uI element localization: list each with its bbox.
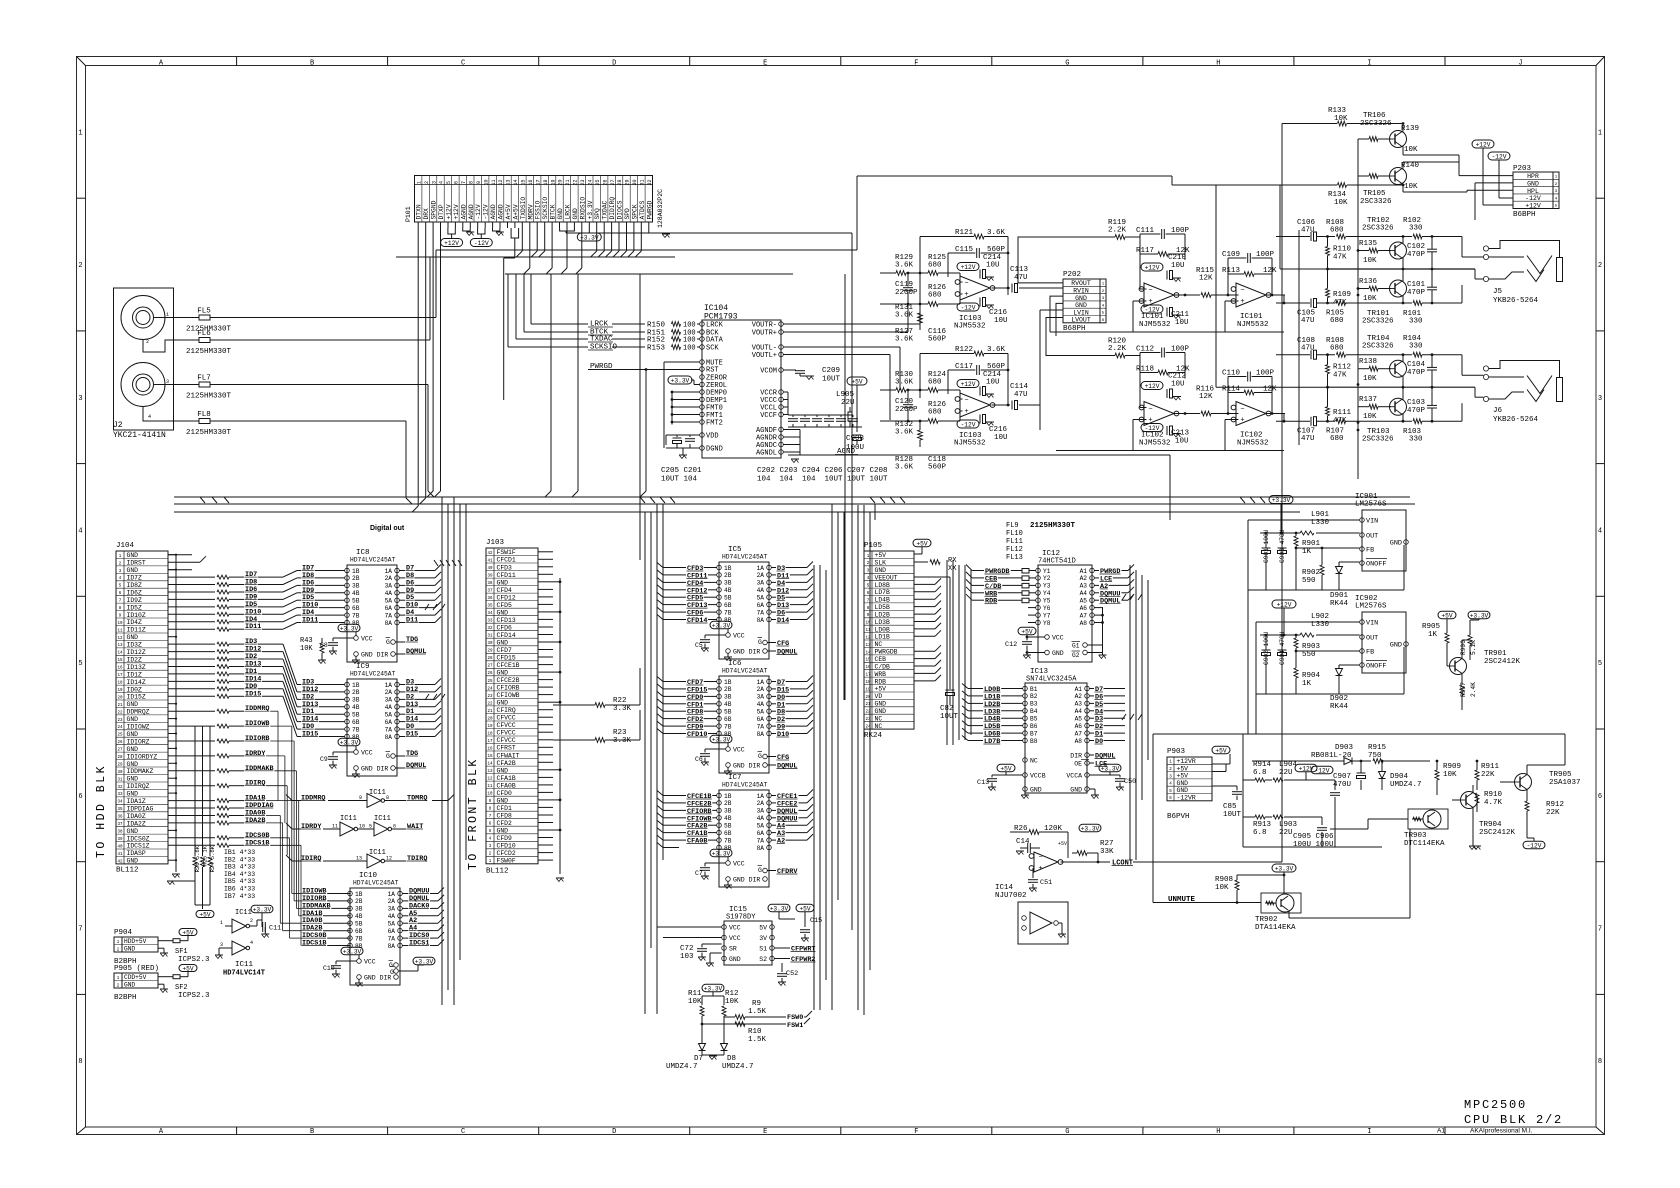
svg-text:VCCF: VCCF (760, 412, 777, 420)
wire TR103 collector (1402, 414, 1405, 423)
svg-text:CFA0B: CFA0B (687, 838, 707, 846)
svg-text:NC: NC (875, 723, 883, 730)
svg-text:AGNDL: AGNDL (756, 450, 777, 458)
svg-text:OUT: OUT (1366, 533, 1378, 541)
IC104 right pins (752, 322, 784, 458)
svg-text:4A: 4A (757, 701, 765, 708)
power flag -12V near C907 (1311, 766, 1333, 774)
wire FL7 run (210, 385, 434, 498)
svg-text:+5V: +5V (199, 912, 210, 919)
svg-text:3V: 3V (759, 935, 767, 942)
wire IC103 output (992, 287, 1011, 290)
svg-text:IDIORZ: IDIORZ (127, 738, 150, 745)
svg-text:4A: 4A (757, 587, 765, 594)
transistor TR902 DTA114EKA (1237, 829, 1410, 932)
svg-text:+3.3V: +3.3V (671, 378, 690, 385)
svg-text:NC: NC (875, 715, 883, 722)
resistor R908 10K (1215, 875, 1239, 903)
svg-text:IC102: IC102 (1240, 432, 1263, 440)
svg-text:Y7: Y7 (1043, 612, 1051, 619)
capacitors C202-C208 on IC104 VCC (757, 392, 888, 484)
capacitor C107 47U (1276, 417, 1335, 444)
svg-text:47K: 47K (1333, 254, 1347, 262)
svg-text:+12V: +12V (1525, 202, 1541, 209)
svg-text:G: G (758, 753, 762, 760)
svg-text:MPC2500: MPC2500 (1464, 1098, 1527, 1112)
svg-text:B6BPH: B6BPH (1513, 211, 1536, 219)
svg-text:5A: 5A (385, 712, 393, 719)
wire IC902 gnd rail (1256, 647, 1404, 694)
resistor R135 10K (1358, 240, 1391, 265)
svg-text:G: G (390, 969, 394, 976)
svg-text:ID4Z: ID4Z (127, 619, 143, 626)
transistor TR901 2SC2412K (1447, 640, 1521, 675)
svg-text:+12V: +12V (1277, 602, 1292, 609)
capacitor C103 470P (1407, 387, 1437, 422)
svg-text:3.6K: 3.6K (895, 379, 914, 387)
capacitor C101 470P (1407, 269, 1437, 304)
svg-text:FSW0: FSW0 (787, 1014, 803, 1022)
svg-text:-12V: -12V (1527, 843, 1542, 850)
svg-text:DQMUL: DQMUL (406, 762, 426, 770)
capacitor C119 2200P (895, 273, 918, 305)
resistor R127 3.6K (895, 328, 914, 344)
svg-text:4A: 4A (757, 815, 765, 822)
svg-text:SCK: SCK (706, 345, 719, 353)
svg-text:S1978DY: S1978DY (726, 914, 756, 922)
resistor R23 3.3K (553, 710, 640, 745)
wire IC901 VIN (1248, 520, 1360, 734)
svg-text:C113: C113 (1010, 266, 1029, 274)
wire FL6 run (210, 257, 430, 340)
svg-text:+3.3V: +3.3V (415, 959, 434, 966)
svg-text:680: 680 (1330, 435, 1344, 443)
svg-text:ID11Z: ID11Z (127, 627, 146, 634)
svg-text:CFD11: CFD11 (497, 572, 516, 579)
svg-text:7: 7 (461, 181, 467, 184)
wire risers P105 to IC12 IC13 (947, 560, 971, 745)
svg-text:3: 3 (220, 942, 223, 948)
svg-text:+: + (964, 408, 968, 416)
ferrite bead FL6 2125HM330T (186, 330, 232, 356)
capacitor C213 10U at IC102 (1167, 426, 1190, 446)
svg-text:+12V: +12V (1476, 142, 1491, 149)
svg-text:FB: FB (1366, 547, 1374, 555)
svg-text:2: 2 (424, 181, 430, 184)
svg-text:NJM5532: NJM5532 (954, 440, 986, 448)
svg-text:IC101: IC101 (1141, 313, 1164, 321)
resistor R131 3.6K (895, 303, 922, 330)
svg-text:1B: 1B (355, 891, 363, 898)
svg-text:10K: 10K (1404, 146, 1418, 154)
svg-text:L903: L903 (1279, 821, 1298, 829)
svg-text:BL112: BL112 (116, 867, 139, 875)
svg-text:CFD0: CFD0 (497, 790, 513, 797)
svg-text:2125HM330T: 2125HM330T (186, 429, 232, 437)
svg-text:1B: 1B (352, 682, 360, 689)
svg-text:6A: 6A (757, 830, 765, 837)
svg-text:5A: 5A (388, 921, 396, 928)
svg-text:R23: R23 (613, 729, 627, 737)
svg-text:5B: 5B (724, 823, 732, 830)
svg-text:R914: R914 (1253, 761, 1272, 769)
svg-text:F: F (914, 1128, 918, 1136)
svg-text:G1: G1 (1072, 643, 1080, 650)
svg-text:C205 C201: C205 C201 (661, 467, 702, 475)
svg-text:10K: 10K (1363, 413, 1377, 421)
svg-text:10K: 10K (1404, 183, 1418, 191)
svg-text:470P: 470P (1407, 407, 1426, 415)
svg-text:A+5V: A+5V (512, 204, 519, 219)
svg-text:B4: B4 (1030, 708, 1038, 715)
wire rail x1299 (1298, 230, 1300, 445)
svg-text:OUT: OUT (1366, 635, 1378, 643)
svg-text:ICPS2.3: ICPS2.3 (178, 992, 210, 1000)
svg-text:J: J (1518, 60, 1522, 68)
svg-text:8A: 8A (385, 734, 393, 741)
svg-text:1K: 1K (1302, 680, 1312, 688)
svg-text:VCC: VCC (1052, 635, 1064, 642)
svg-text:2125HM330T: 2125HM330T (186, 393, 232, 401)
resistor R102 330 (1403, 217, 1462, 239)
svg-text:17: 17 (535, 179, 541, 185)
svg-text:GND: GND (127, 634, 139, 641)
node AGND at IC104 (783, 430, 880, 463)
IC buffer IC9 HD74LVC245AT (320, 663, 441, 778)
svg-text:D11: D11 (406, 617, 418, 625)
svg-text:5: 5 (446, 181, 452, 184)
svg-text:27: 27 (610, 179, 616, 185)
svg-text:A7: A7 (1080, 612, 1088, 619)
svg-text:47U: 47U (1301, 317, 1315, 325)
transistor TR104 2SC3326 label (1362, 335, 1394, 351)
svg-text:AGND: AGND (468, 204, 475, 219)
svg-text:DATA: DATA (706, 337, 724, 345)
svg-text:16: 16 (528, 179, 534, 185)
resistor R133 10K (1282, 107, 1403, 126)
svg-text:1A: 1A (385, 682, 393, 689)
wire cell bottom corner (1461, 403, 1463, 421)
inverter IC11 IDRDY pair (286, 815, 423, 836)
wire bus risers left column (442, 497, 466, 1005)
power flag +12V at IC902 (1272, 600, 1296, 636)
svg-text:−: − (964, 397, 968, 405)
transistor TR903 DTC114EKA (1330, 809, 1448, 848)
svg-text:CFD4: CFD4 (497, 587, 513, 594)
wire P101 pins 1-4 long verticals (412, 228, 440, 512)
capacitor C907 470U (1333, 760, 1366, 790)
svg-text:104 104 104 10UT 10UT 10UT: 104 104 104 10UT 10UT 10UT (757, 476, 888, 484)
svg-text:D8: D8 (727, 1055, 736, 1063)
svg-text:LM2576S: LM2576S (1355, 603, 1387, 611)
op-amp IC103 NJM5532 (954, 393, 995, 448)
resistor R914 6.8 and L904 22U (1243, 761, 1335, 790)
svg-text:GND: GND (497, 797, 509, 804)
svg-text:7: 7 (78, 926, 82, 934)
svg-text:12: 12 (386, 856, 392, 862)
svg-text:A6: A6 (1080, 605, 1088, 612)
svg-text:IDRDY: IDRDY (301, 823, 322, 831)
title CPU BLK 2/2 (1464, 1113, 1563, 1127)
svg-text:20: 20 (558, 179, 564, 185)
svg-text:4B: 4B (724, 701, 732, 708)
svg-text:D7: D7 (694, 1055, 703, 1063)
svg-text:1K: 1K (1302, 548, 1312, 556)
capacitor C211 10U at IC101 (1167, 308, 1190, 328)
bus horizontal y512 (174, 511, 1300, 513)
svg-text:A4: A4 (1075, 708, 1083, 715)
IC buffer IC5 HD74LVC245AT (679, 546, 813, 661)
svg-text:470P: 470P (1407, 369, 1426, 377)
svg-text:CFPWR2: CFPWR2 (791, 956, 815, 964)
connector P905 B2BPH (114, 965, 210, 1003)
svg-text:IDIOWZ: IDIOWZ (127, 724, 150, 731)
svg-text:2B: 2B (724, 800, 732, 807)
bus line 2 under P101 (505, 273, 793, 275)
svg-text:CFD13: CFD13 (497, 617, 516, 624)
svg-text:PWRGDB: PWRGDB (875, 649, 898, 656)
resistor R126 680 (880, 284, 963, 306)
svg-text:ID13Z: ID13Z (127, 664, 146, 671)
svg-text:P904: P904 (114, 929, 133, 937)
svg-text:IDIRQ: IDIRQ (301, 855, 321, 863)
svg-text:C103: C103 (1407, 399, 1426, 407)
wire VOUTL- to R130 (783, 347, 900, 390)
svg-text:10U: 10U (1171, 262, 1185, 270)
svg-text:GND: GND (127, 776, 139, 783)
svg-text:2A: 2A (385, 689, 393, 696)
svg-text:CFVCC: CFVCC (497, 722, 516, 729)
svg-text:47K: 47K (1333, 372, 1347, 380)
svg-text:100: 100 (683, 345, 696, 353)
svg-text:IDIORDYZ: IDIORDYZ (127, 753, 158, 760)
transistor TR106 2SC3326 (1390, 122, 1407, 147)
svg-text:LCONT: LCONT (1112, 860, 1133, 868)
svg-text:R150: R150 (647, 322, 666, 330)
svg-text:+5V: +5V (851, 379, 862, 386)
svg-text:8A: 8A (757, 617, 765, 624)
svg-text:3.6K: 3.6K (987, 229, 1006, 237)
svg-text:GND: GND (497, 670, 509, 677)
svg-text:IDCS1: IDCS1 (409, 940, 429, 948)
transistor TR106 2SC3326 label (1360, 112, 1392, 128)
svg-text:7B: 7B (352, 726, 360, 733)
svg-text:1A: 1A (388, 891, 396, 898)
svg-text:HD74LVC245AT: HD74LVC245AT (350, 557, 396, 564)
svg-text:−: − (1148, 405, 1152, 413)
svg-text:7A: 7A (385, 612, 393, 619)
wire J2 pin2 jog (143, 339, 199, 352)
svg-text:R910: R910 (1484, 791, 1503, 799)
svg-text:L901: L901 (1311, 511, 1330, 519)
svg-text:B1: B1 (1030, 686, 1038, 693)
svg-text:DIR: DIR (1070, 753, 1082, 760)
svg-text:22: 22 (573, 179, 579, 185)
svg-text:B2: B2 (1030, 693, 1038, 700)
svg-text:ID6Z: ID6Z (127, 589, 143, 596)
wire PWRGD to IC104 MUTE RST (545, 233, 852, 497)
resistor R125 680 (907, 254, 963, 282)
svg-text:VCC: VCC (733, 861, 745, 868)
svg-text:C5: C5 (695, 642, 703, 649)
svg-text:ID15: ID15 (302, 731, 318, 739)
svg-text:C13: C13 (977, 779, 989, 787)
svg-text:ID2Z: ID2Z (127, 657, 143, 664)
svg-text:5: 5 (369, 824, 372, 830)
svg-text:CFRST: CFRST (497, 745, 516, 752)
svg-text:12K: 12K (1199, 275, 1213, 283)
svg-text:5B: 5B (724, 595, 732, 602)
svg-text:+12V: +12V (961, 264, 976, 271)
svg-text:DIDIRQ: DIDIRQ (609, 197, 616, 220)
svg-text:R110: R110 (1333, 246, 1352, 254)
svg-text:Y8: Y8 (1043, 620, 1051, 627)
svg-text:32: 32 (647, 179, 653, 185)
svg-text:FL10: FL10 (1006, 530, 1023, 538)
capacitor C105 47U (1276, 299, 1335, 326)
svg-text:+5V: +5V (1021, 629, 1032, 636)
svg-text:IDIORB: IDIORB (245, 735, 269, 743)
svg-text:1A: 1A (757, 679, 765, 686)
label A1 (1437, 1128, 1445, 1135)
svg-text:CFIRQ: CFIRQ (497, 707, 516, 714)
svg-text:A7: A7 (1075, 730, 1083, 737)
svg-text:LRCK: LRCK (565, 204, 572, 219)
transistor TR905 2SA1037 (1500, 734, 1581, 800)
label AKAIprofessional M.I. (1470, 1128, 1533, 1135)
svg-text:-12V: -12V (475, 204, 482, 219)
svg-text:LD8B: LD8B (875, 582, 891, 589)
svg-text:3A: 3A (757, 694, 765, 701)
transistor TR103 lower 2SC3326 (1390, 398, 1407, 415)
resistor R109 47K vertical (1326, 269, 1352, 307)
svg-text:680: 680 (928, 379, 942, 387)
resistor R128 3.6K (895, 456, 914, 472)
svg-text:C905 C906: C905 C906 (1293, 833, 1334, 841)
capacitor C109 100P (1222, 251, 1275, 295)
svg-text:680: 680 (928, 292, 942, 300)
transistor TR105 2SC3326 label (1360, 190, 1392, 206)
diodes D7 D8 UMDZ4.7 with R9-R12 (666, 984, 812, 1071)
svg-text:5A: 5A (757, 823, 765, 830)
svg-text:ICPS2.3: ICPS2.3 (178, 956, 210, 964)
capacitor C106 47U (1276, 219, 1335, 241)
svg-text:+3.3V: +3.3V (1470, 613, 1489, 620)
resistor R140 10K (857, 162, 1420, 191)
svg-text:26: 26 (602, 179, 608, 185)
svg-text:CFD9: CFD9 (497, 835, 513, 842)
svg-text:IC11: IC11 (235, 909, 252, 917)
svg-text:ID14Z: ID14Z (127, 679, 146, 686)
svg-text:A4: A4 (1080, 590, 1088, 597)
svg-text:+: + (1240, 298, 1244, 306)
svg-text:5A: 5A (385, 598, 393, 605)
resistor R116 12K interstage (1174, 386, 1229, 416)
power flag +12V at IC103 (957, 380, 979, 389)
wire cell mid to jack tip (1475, 387, 1483, 397)
wire PWRGD from P101 pin 32 (649, 228, 852, 233)
svg-text:FL6: FL6 (197, 330, 211, 338)
svg-text:10UT: 10UT (940, 713, 959, 721)
svg-text:-12V: -12V (483, 204, 490, 219)
svg-text:2B: 2B (724, 572, 732, 579)
resistor R907 2.4K (1460, 674, 1477, 710)
wire cell to jack ring (1462, 355, 1483, 376)
svg-text:2SC3326: 2SC3326 (1362, 436, 1394, 444)
resistor R122 3.6K feedback (920, 346, 1008, 405)
svg-text:IC14: IC14 (995, 884, 1014, 892)
svg-text:2A: 2A (757, 572, 765, 579)
svg-text:G: G (758, 867, 762, 874)
resistor R124 680 (907, 371, 963, 399)
jack J5 YKB26-5264 (1483, 241, 1562, 306)
svg-text:R153: R153 (647, 345, 666, 353)
svg-text:6: 6 (78, 793, 82, 801)
svg-text:330: 330 (1409, 318, 1423, 326)
wire P202 GND (1050, 296, 1063, 336)
connector P202 B68PH (1063, 271, 1106, 333)
inverter IC11 gate with C11 (215, 905, 281, 977)
IC DAC IC104 PCM1793 (702, 304, 781, 458)
svg-text:35: 35 (117, 808, 123, 812)
svg-text:+12VR: +12VR (1177, 758, 1196, 765)
svg-text:CFD14: CFD14 (687, 617, 707, 625)
svg-text:GND DIR: GND DIR (361, 766, 388, 773)
svg-text:2.4K: 2.4K (1470, 682, 1477, 697)
svg-text:C101: C101 (1407, 281, 1426, 289)
svg-text:GND: GND (497, 579, 509, 586)
svg-text:31: 31 (640, 179, 646, 185)
svg-text:+3.3V: +3.3V (343, 949, 362, 956)
svg-text:18: 18 (543, 179, 549, 185)
svg-text:Y4: Y4 (1043, 590, 1051, 597)
svg-text:IDA2B: IDA2B (245, 817, 265, 825)
wire P203 GND (1475, 183, 1513, 220)
svg-text:7B: 7B (352, 612, 360, 619)
resistor R153 100 on SCKSIO (508, 274, 700, 353)
wire IC15 VCC feeds (657, 927, 722, 938)
svg-text:6.8: 6.8 (1253, 829, 1267, 837)
svg-text:C9: C9 (320, 756, 328, 763)
svg-text:R136: R136 (1359, 278, 1378, 286)
svg-text:AGND: AGND (498, 204, 505, 219)
svg-text:−: − (964, 280, 968, 288)
inverter IC11 IDIRQ (286, 849, 427, 868)
svg-text:R122: R122 (955, 346, 973, 354)
wire analog gnd rail lower (1056, 450, 1284, 452)
svg-text:IDDMRQ: IDDMRQ (301, 795, 325, 803)
wire AGND long (880, 455, 1170, 520)
svg-text:ID3Z: ID3Z (127, 642, 143, 649)
svg-text:SPD: SPD (624, 208, 631, 220)
resistor R117 12K (1136, 237, 1190, 256)
svg-text:6.8: 6.8 (1253, 769, 1267, 777)
svg-text:NJM5532: NJM5532 (1139, 440, 1171, 448)
svg-text:6B: 6B (352, 719, 360, 726)
svg-text:CFD7: CFD7 (497, 647, 513, 654)
svg-text:+5V: +5V (916, 541, 927, 548)
wire IC13 input slashes (962, 684, 968, 741)
svg-text:2.2K: 2.2K (1108, 227, 1127, 235)
svg-text:2SA1037: 2SA1037 (1549, 779, 1581, 787)
svg-text:ATDCS: ATDCS (639, 200, 646, 219)
svg-text:+12V: +12V (1299, 766, 1314, 773)
wire A+5V drop (504, 228, 519, 400)
title MPC2500 (1464, 1098, 1527, 1112)
svg-text:TR106: TR106 (1363, 112, 1386, 120)
svg-text:TDMRQ: TDMRQ (407, 795, 427, 803)
svg-text:5A: 5A (757, 709, 765, 716)
